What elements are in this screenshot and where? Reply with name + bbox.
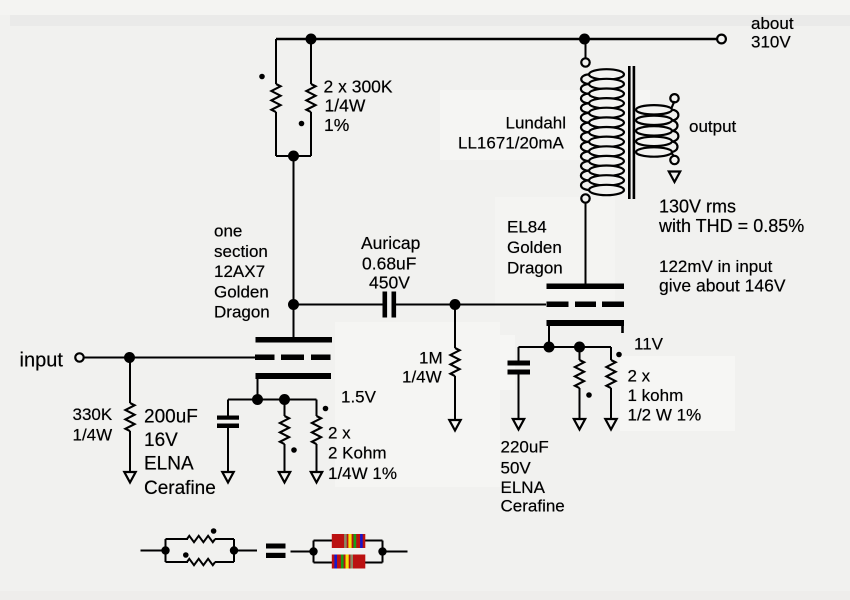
svg-text:Dragon: Dragon xyxy=(507,259,563,278)
wire 220uF bottom xyxy=(518,375,520,419)
svg-text:1/4W: 1/4W xyxy=(73,426,113,445)
dot marker 300K right xyxy=(299,121,305,127)
svg-text:310V: 310V xyxy=(751,33,791,52)
resistor photo bottom body xyxy=(332,555,366,569)
wire legend2 left lead xyxy=(291,551,312,553)
wire EL84 cathode bus xyxy=(519,346,612,348)
dot marker 2K right xyxy=(323,406,329,412)
ground 220uF xyxy=(513,419,524,430)
terminal B+ circle xyxy=(717,35,726,44)
terminal input circle xyxy=(75,353,83,361)
node 1M junction xyxy=(450,299,461,310)
wire input node down to 330K xyxy=(129,358,131,404)
svg-text:2 Kohm: 2 Kohm xyxy=(328,444,387,463)
equals sign xyxy=(266,544,286,549)
node legend right xyxy=(230,546,238,554)
svg-text:LL1671/20mA: LL1671/20mA xyxy=(458,134,565,153)
svg-text:50V: 50V xyxy=(501,459,532,478)
svg-text:give about 146V: give about 146V xyxy=(659,276,786,296)
wire bypass cap branch xyxy=(227,400,229,417)
terminal transformer primary bottom circle xyxy=(581,194,589,202)
svg-text:about: about xyxy=(751,14,794,33)
svg-text:output: output xyxy=(689,117,737,136)
dot marker 300K left xyxy=(259,74,265,80)
dot marker 1k right xyxy=(616,352,622,358)
node legend2 right xyxy=(378,547,386,555)
svg-text:1/4W: 1/4W xyxy=(402,368,442,387)
wire input to grid xyxy=(84,357,255,359)
capacitor C 200uF top plate xyxy=(217,416,239,420)
wire cathode R2 bottom xyxy=(316,444,318,471)
dot marker 2K left xyxy=(291,447,297,453)
dot marker legend bottom xyxy=(183,552,189,558)
ground 2K a xyxy=(279,472,290,483)
wire top rail B+ xyxy=(276,38,717,40)
svg-text:ELNA: ELNA xyxy=(144,454,194,475)
capacitor C 200uF bottom plate xyxy=(217,424,239,429)
wire legend2 right box xyxy=(365,541,383,563)
ground 1k a xyxy=(574,419,585,430)
wire 300K bottom connector xyxy=(276,155,311,157)
wire coupling cap to EL84 grid xyxy=(396,304,546,306)
resistor R 1M xyxy=(450,348,459,376)
svg-text:one: one xyxy=(214,222,242,241)
wire 12AX7 cathode drop xyxy=(257,379,259,400)
wire 1kohm R2 top xyxy=(610,347,612,360)
dot marker 1k left xyxy=(586,392,592,398)
resistor R 1k b xyxy=(606,360,615,388)
capacitor C coupling Auricap right plate xyxy=(392,292,397,318)
svg-text:2 x: 2 x xyxy=(328,424,351,443)
svg-text:1%: 1% xyxy=(324,115,349,135)
capacitor C 220uF top plate xyxy=(508,361,531,366)
wire EL84 cathode drop xyxy=(548,326,550,347)
svg-text:16V: 16V xyxy=(144,430,178,451)
wire 220uF branch xyxy=(518,347,520,361)
svg-text:Auricap: Auricap xyxy=(361,233,420,253)
ground 1M xyxy=(449,420,460,431)
wire legend left lead xyxy=(141,550,164,552)
svg-text:Golden: Golden xyxy=(214,282,269,301)
resistor legend zigzag bottom xyxy=(187,559,215,565)
svg-text:330K: 330K xyxy=(73,405,113,424)
svg-text:1 kohm: 1 kohm xyxy=(628,386,684,405)
tube U2 EL84 plate bar xyxy=(547,284,625,290)
ground secondary arrow xyxy=(669,172,680,183)
svg-text:Golden: Golden xyxy=(507,238,562,257)
capacitor C coupling Auricap left plate xyxy=(383,292,388,318)
svg-text:1/4W 1%: 1/4W 1% xyxy=(328,464,397,483)
ground 1k b xyxy=(605,419,616,430)
wire legend right box xyxy=(215,539,234,562)
wire 1M resistor bottom xyxy=(454,376,456,419)
tube U1 12AX7 cathode bar xyxy=(256,373,332,379)
wire 1kohm R2 bottom xyxy=(610,388,612,418)
resistor R 300K left xyxy=(271,84,280,112)
wire cathode R1 bottom xyxy=(284,444,286,471)
wire 1kohm R1 bottom xyxy=(579,388,581,418)
svg-text:EL84: EL84 xyxy=(507,218,547,237)
ground 200uF xyxy=(222,472,233,483)
node 300K bottom junction xyxy=(288,151,299,162)
node EL84 cathode junction b xyxy=(574,342,585,353)
wire 200uF bottom xyxy=(227,428,229,471)
wire legend2 right lead xyxy=(385,551,408,553)
wire right 300K branch upper xyxy=(310,39,312,84)
resistor R 330K xyxy=(125,403,134,431)
svg-text:2 x 300K: 2 x 300K xyxy=(324,77,393,97)
node input junction xyxy=(124,352,135,363)
tube U1 12AX7 grid dashes xyxy=(255,355,275,361)
tube U2 EL84 cathode bar xyxy=(547,320,625,326)
wire left 300K branch upper xyxy=(275,39,277,84)
tube U2 EL84 grid dashes xyxy=(547,302,569,308)
wire 330K bottom xyxy=(129,431,131,471)
svg-text:Lundahl: Lundahl xyxy=(506,114,567,133)
wire left 300K branch lower xyxy=(275,112,277,156)
tube U1 12AX7 plate bar xyxy=(256,337,333,343)
wire right 300K branch lower xyxy=(310,112,312,156)
capacitor C 220uF bottom plate xyxy=(508,370,531,375)
svg-text:section: section xyxy=(214,242,268,261)
terminal transformer primary top circle xyxy=(581,58,589,66)
ground 330K xyxy=(124,472,135,483)
dot marker legend top xyxy=(211,528,217,534)
svg-text:ELNA: ELNA xyxy=(501,478,546,497)
svg-text:Dragon: Dragon xyxy=(214,303,270,322)
svg-text:Cerafine: Cerafine xyxy=(501,497,565,516)
transformer T1 secondary winding xyxy=(636,101,678,157)
wire EL84 cathode right stub xyxy=(621,326,624,333)
node 12AX7 cathode junction a xyxy=(252,394,263,405)
node 12AX7 cathode junction b xyxy=(279,394,290,405)
wire transformer primary top feed xyxy=(585,39,587,58)
svg-text:12AX7: 12AX7 xyxy=(214,262,265,281)
transformer T1 primary winding xyxy=(581,69,624,195)
wire legend2 left box xyxy=(314,541,333,563)
ground 2K b xyxy=(311,472,322,483)
wire EL84 plate up to transformer xyxy=(585,203,587,284)
wire plate node to coupling cap xyxy=(294,304,384,306)
resistor R 2K a xyxy=(280,416,289,444)
node EL84 cathode junction a xyxy=(544,342,555,353)
resistor R 2K b xyxy=(312,416,321,444)
svg-text:input: input xyxy=(20,350,64,372)
node plate coupling junction xyxy=(288,299,299,310)
svg-text:1M: 1M xyxy=(419,349,443,368)
svg-text:122mV in input: 122mV in input xyxy=(659,257,773,276)
svg-text:2 x: 2 x xyxy=(628,367,651,386)
wire plate feed down to 12AX7 xyxy=(293,156,295,337)
wire 1M resistor top xyxy=(454,305,456,349)
terminal transformer secondary top circle xyxy=(670,94,678,102)
svg-text:1/2 W 1%: 1/2 W 1% xyxy=(628,406,702,425)
wire cathode R2 top xyxy=(316,400,318,417)
svg-text:450V: 450V xyxy=(369,273,410,293)
wire cathode R1 top xyxy=(284,400,286,417)
node legend2 left xyxy=(309,547,317,555)
terminal transformer secondary bottom circle xyxy=(670,156,678,164)
resistor photo top body xyxy=(332,534,366,548)
wire legend left box xyxy=(166,539,189,562)
node top rail junction xyxy=(306,34,317,45)
wire 1kohm R1 top xyxy=(579,347,581,360)
node transformer rail junction xyxy=(579,34,590,45)
resistor R 1k a xyxy=(575,360,584,388)
wire 12AX7 cathode bus xyxy=(228,399,317,401)
transformer T1 core lines xyxy=(628,66,631,199)
svg-text:220uF: 220uF xyxy=(501,438,549,457)
wire legend right lead xyxy=(234,550,257,552)
svg-text:0.68uF: 0.68uF xyxy=(362,253,416,273)
svg-text:11V: 11V xyxy=(634,335,664,354)
svg-text:with THD = 0.85%: with THD = 0.85% xyxy=(658,216,804,236)
svg-text:200uF: 200uF xyxy=(144,407,198,428)
svg-text:1/4W: 1/4W xyxy=(325,96,366,116)
svg-text:1.5V: 1.5V xyxy=(341,388,377,407)
svg-text:130V rms: 130V rms xyxy=(659,197,736,217)
resistor legend zigzag top xyxy=(187,536,215,542)
svg-text:Cerafine: Cerafine xyxy=(144,478,216,499)
node legend left xyxy=(161,546,169,554)
resistor R 300K right xyxy=(306,84,315,112)
